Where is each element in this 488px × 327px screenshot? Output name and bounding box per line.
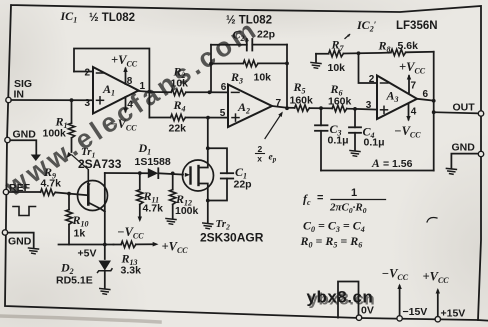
node GND terminal right: [478, 151, 483, 156]
svg-text:3: 3: [366, 100, 372, 111]
ground at R7 left: [311, 54, 321, 69]
resistor R10: [66, 194, 72, 245]
label R10: [72, 213, 89, 229]
wire +5V rail: [59, 244, 114, 246]
label R9: [43, 165, 56, 181]
svg-text:0.1μ: 0.1μ: [364, 137, 385, 149]
ground upper-left (solid triangle): [31, 155, 41, 162]
value R2 10k: [171, 78, 189, 90]
label A2: [237, 100, 250, 116]
label -Vcc A1: [110, 117, 137, 132]
svg-text:= 1.56: = 1.56: [383, 158, 413, 170]
node SIG IN terminal: [6, 97, 11, 102]
label ep: [269, 153, 277, 164]
label R11: [143, 189, 160, 205]
formula R0=R5=R6: [300, 234, 363, 250]
op-amp A2 plus sign: [232, 114, 239, 121]
wire A1 feedback loop: [74, 49, 149, 118]
wire -Vcc drop: [397, 284, 401, 319]
diode D1: [148, 168, 159, 178]
value C4 0.1u: [364, 137, 385, 149]
wire A3 pin3 stub: [355, 108, 377, 111]
transistor Tr1 emitter: [86, 170, 91, 189]
pin 3 label A3: [366, 100, 372, 111]
R1 end arrow mark: [65, 152, 72, 159]
resistor R8: [389, 49, 434, 55]
svg-text:6: 6: [221, 82, 227, 93]
wire A1 output: [139, 90, 150, 93]
pin 7 label A3: [411, 81, 417, 92]
label IC2 LF356N: [356, 18, 438, 34]
label GND lower-left: [8, 236, 32, 248]
capacitor C4: [349, 109, 361, 150]
resistor R3: [211, 60, 287, 66]
resistor R2: [149, 89, 209, 95]
op-amp A2 triangle: [228, 85, 272, 128]
pin 3 label A1: [85, 98, 91, 109]
svg-text:6: 6: [423, 89, 429, 100]
svg-text:½ TL082: ½ TL082: [89, 12, 135, 24]
node junction R7-R8: [357, 51, 361, 55]
ground right: [446, 168, 456, 174]
svg-text:+5V: +5V: [78, 248, 97, 260]
svg-text:160k: 160k: [290, 95, 314, 107]
svg-text:½ TL082: ½ TL082: [226, 15, 272, 27]
label R13: [121, 252, 138, 268]
watermark www.elecfans.com: [0, 13, 264, 202]
svg-text:10k: 10k: [171, 78, 189, 90]
wire A2 feedback riser: [286, 45, 288, 109]
svg-text:10k: 10k: [254, 72, 272, 84]
svg-text:10k: 10k: [328, 62, 346, 74]
node junction R10 top: [67, 192, 71, 196]
op-amp A3 minus sign: [381, 82, 389, 84]
pin 6 label A2: [221, 82, 227, 93]
op-amp A2 minus sign: [232, 91, 240, 93]
svg-text:4: 4: [127, 100, 133, 111]
value R12 100k: [175, 205, 199, 217]
node GND terminal lower-left: [2, 230, 7, 235]
arrow to A2 output (ep pointer): [265, 110, 285, 138]
pin 4 label A1: [127, 100, 133, 111]
svg-text:2πC0·R0: 2πC0·R0: [329, 202, 367, 215]
label A=1.56: [371, 158, 413, 170]
transistor Tr1 collector: [88, 203, 105, 212]
label 2/x: [256, 144, 265, 164]
resistor R12: [170, 173, 176, 218]
svg-text:7: 7: [411, 81, 417, 92]
capacitor C2: [211, 39, 287, 51]
wire A1 pin2: [74, 71, 93, 73]
node junction C1 bottom: [206, 199, 210, 203]
formula C0=C3=C4: [303, 219, 365, 235]
node junction A3 out: [432, 99, 436, 103]
node junction C4 top: [353, 107, 357, 111]
value R11 4.7k: [143, 203, 164, 215]
value R10 1k: [74, 228, 86, 240]
label OUT: [453, 102, 476, 114]
node junction R1 top: [70, 98, 74, 102]
label D2: [60, 261, 74, 277]
value C2 22p: [257, 29, 275, 41]
svg-text:IC2′: IC2′: [356, 18, 377, 34]
ground below D2: [100, 289, 110, 295]
svg-text:−15V: −15V: [403, 306, 428, 318]
pin 6 label A3: [423, 89, 429, 100]
wire SIG IN to A1 pin3: [11, 99, 93, 101]
resistor R4: [149, 114, 228, 120]
label 2SK30AGR: [200, 231, 264, 245]
pin 8 line A1 (+Vcc): [123, 67, 127, 85]
node junction R2-A2 in: [208, 90, 212, 94]
svg-text:1S1588: 1S1588: [135, 156, 171, 168]
label Tr1: [81, 146, 95, 160]
value R6 160k: [328, 96, 352, 108]
svg-text:=: =: [317, 192, 323, 204]
svg-text:x: x: [257, 154, 262, 164]
svg-text:GND: GND: [8, 236, 32, 248]
value R7 10k: [328, 62, 346, 74]
value R4 22k: [169, 123, 187, 135]
formula fc: [303, 187, 386, 215]
label Tr2: [216, 218, 231, 232]
transistor Tr2 circle: [183, 160, 214, 191]
svg-text:22p: 22p: [257, 29, 275, 41]
label 0V: [361, 305, 374, 317]
label R12: [175, 192, 192, 208]
label +Vcc bottom: [423, 270, 450, 285]
label 2SA733: [78, 157, 122, 171]
pin 8 label A1: [127, 76, 133, 87]
label C4: [363, 125, 375, 141]
svg-text:100k: 100k: [43, 128, 67, 140]
wire +Vcc drop: [436, 288, 440, 319]
svg-text:5: 5: [220, 108, 226, 119]
svg-text:2: 2: [85, 68, 91, 79]
pin 1 label A1: [140, 81, 146, 92]
label A3: [386, 89, 399, 105]
label D1: [138, 141, 152, 157]
svg-text:4: 4: [411, 107, 417, 118]
svg-text:5.6k: 5.6k: [398, 40, 419, 52]
R7 tick mark: [345, 33, 351, 39]
svg-text:22p: 22p: [234, 179, 252, 191]
zener diode D2: [98, 261, 113, 289]
svg-text:LF356N: LF356N: [396, 20, 438, 32]
transistor Tr2 channel: [197, 166, 199, 185]
wire A=1.56 loop bottom: [321, 170, 434, 172]
label -Vcc bottom: [382, 267, 409, 282]
wire A2 output: [272, 106, 287, 108]
node junction R3 left: [209, 62, 213, 66]
svg-text:4.7k: 4.7k: [143, 203, 164, 215]
pin 4 line A3 (-Vcc): [406, 104, 410, 122]
svg-text:2: 2: [369, 74, 375, 85]
wire Tr1 collector drop: [104, 173, 106, 259]
node OUT terminal: [478, 111, 483, 116]
label REF: [9, 182, 31, 194]
svg-text:3: 3: [85, 98, 91, 109]
pin 4 line A1 (-Vcc): [123, 97, 127, 114]
transistor Tr2 source: [199, 184, 208, 223]
label 1/2 TL082 (A2): [226, 15, 272, 27]
svg-text:GND: GND: [452, 142, 476, 154]
pin 2 label A1: [85, 68, 91, 79]
node junction A2 out: [285, 106, 289, 110]
wire D1 rail: [105, 172, 148, 174]
resistor R9: [9, 189, 89, 195]
svg-text:4.7k: 4.7k: [41, 178, 62, 190]
node junction R3 right: [285, 62, 289, 66]
op-amp A1 triangle: [93, 67, 139, 114]
wire GND lower-left: [8, 233, 34, 248]
value R5 160k: [290, 95, 314, 107]
label +Vcc A1: [111, 53, 138, 68]
svg-text:2: 2: [258, 144, 263, 154]
ground below C4: [350, 151, 360, 157]
value R9 4.7k: [41, 178, 62, 190]
label -Vcc below R11: [117, 225, 144, 240]
svg-text:GND: GND: [13, 129, 37, 141]
svg-text:2SK30AGR: 2SK30AGR: [200, 231, 264, 245]
label 1/2 TL082 (IC1): [89, 12, 135, 24]
node 0V terminal: [356, 315, 361, 320]
stray pencil mark: [427, 218, 437, 223]
svg-text:ybx8.cn: ybx8.cn: [307, 288, 374, 307]
label GND right: [452, 142, 476, 154]
value C3 0.1u: [328, 135, 349, 147]
svg-text:2SA733: 2SA733: [78, 157, 122, 171]
node junction zener top: [103, 243, 107, 247]
op-amp A1 plus sign: [97, 97, 104, 104]
value R1 100k: [43, 128, 67, 140]
wire R1 to Tr1 emitter: [72, 155, 89, 170]
node junction R4-Tr2 drain: [206, 116, 210, 120]
page edge shadow: [0, 316, 488, 322]
value D2 RD5.1E: [56, 275, 93, 287]
node GND terminal upper-left: [5, 137, 10, 142]
svg-text:+15V: +15V: [441, 308, 466, 320]
svg-text:A: A: [371, 158, 380, 170]
resistor R11: [137, 173, 143, 222]
label C2: [233, 28, 245, 44]
capacitor C1: [208, 148, 233, 200]
svg-text:0.1μ: 0.1μ: [328, 135, 349, 147]
node REF terminal: [3, 189, 8, 194]
value R8 5.6k: [398, 40, 419, 52]
wire right GND: [451, 154, 478, 168]
node +15V terminal: [435, 317, 440, 322]
resistor R1: [68, 100, 74, 152]
label R6: [330, 82, 343, 98]
wire D1 to Tr2 gate: [158, 173, 183, 174]
wire A3 feedback drop: [433, 52, 435, 171]
transistor Tr2 drain: [199, 118, 208, 168]
label C1: [235, 165, 247, 181]
ground below R12: [166, 219, 176, 225]
value R13 3.3k: [121, 265, 142, 277]
op-amp A3 triangle: [377, 76, 417, 120]
label SIG IN: [14, 78, 33, 101]
transistor Tr1 circle: [78, 181, 108, 211]
pin 4 label A3: [411, 107, 417, 118]
transistor Tr1 base bar: [87, 187, 90, 205]
resistor R7: [316, 50, 389, 56]
label A1: [102, 82, 115, 98]
value C1 22p: [234, 179, 252, 191]
pin 5 label A2: [220, 108, 226, 119]
label C3: [330, 122, 342, 138]
wire A2 pin6 stub: [210, 91, 229, 93]
pin 7 line A3 (+Vcc): [407, 74, 411, 93]
label R7: [331, 38, 345, 54]
label R5: [293, 80, 306, 96]
capacitor C3: [315, 108, 328, 170]
svg-text:100k: 100k: [175, 205, 199, 217]
node junction R11 top: [138, 171, 142, 175]
ground lower-left: [29, 248, 39, 254]
label -Vcc A3: [394, 124, 421, 139]
op-amp A3 plus sign: [381, 106, 388, 113]
resistor R13: [114, 241, 159, 247]
label GND upper-left: [13, 129, 37, 141]
wire A3 output: [417, 99, 434, 101]
svg-text:22k: 22k: [169, 123, 187, 135]
label +5V: [78, 248, 97, 260]
wire to OUT terminal: [434, 112, 479, 113]
value R3 10k: [254, 72, 272, 84]
label R8: [378, 39, 391, 55]
label R3: [230, 70, 243, 86]
svg-text:1k: 1k: [74, 228, 86, 240]
label R4: [173, 98, 186, 114]
transistor Tr2 gate bar: [189, 168, 191, 184]
logo ybx8.cn: [307, 288, 376, 309]
node junction OUT branch: [432, 110, 436, 114]
label +Vcc A3: [399, 60, 426, 75]
waveform symbol (negative pulse): [13, 207, 36, 216]
ground below Tr2 source: [203, 223, 213, 229]
wire A3 pin2 riser: [359, 53, 378, 83]
node junction A1 out: [148, 90, 152, 94]
label +Vcc at R13: [162, 240, 189, 255]
resistor R5: [287, 105, 321, 111]
svg-text:OUT: OUT: [453, 102, 476, 114]
svg-text:RD5.1E: RD5.1E: [56, 275, 93, 287]
value D1 1S1588: [135, 156, 171, 168]
svg-text:IN: IN: [14, 89, 25, 101]
svg-text:1: 1: [351, 187, 357, 199]
op-amp A1 minus sign: [97, 72, 105, 74]
label IC1: [60, 9, 78, 25]
wire 0V hook: [338, 282, 359, 318]
wire GND upper-left: [10, 140, 36, 155]
pin 7 label A2: [276, 98, 282, 109]
svg-text:3.3k: 3.3k: [121, 265, 142, 277]
resistor R6: [321, 105, 355, 111]
transistor Tr2 gate arrow: [185, 173, 190, 177]
label -15V: [403, 306, 428, 318]
node junction C1 top: [206, 146, 210, 150]
label R2: [173, 65, 186, 81]
label +15V: [441, 308, 466, 320]
node -15V terminal: [397, 316, 402, 321]
pin 2 label A3: [369, 74, 375, 85]
wire A2 inverting riser: [210, 45, 212, 93]
node junction C3 top: [319, 106, 323, 110]
node junction R12 top: [171, 172, 175, 176]
label R1: [55, 115, 68, 131]
svg-text:8: 8: [127, 76, 133, 87]
svg-text:160k: 160k: [328, 96, 352, 108]
